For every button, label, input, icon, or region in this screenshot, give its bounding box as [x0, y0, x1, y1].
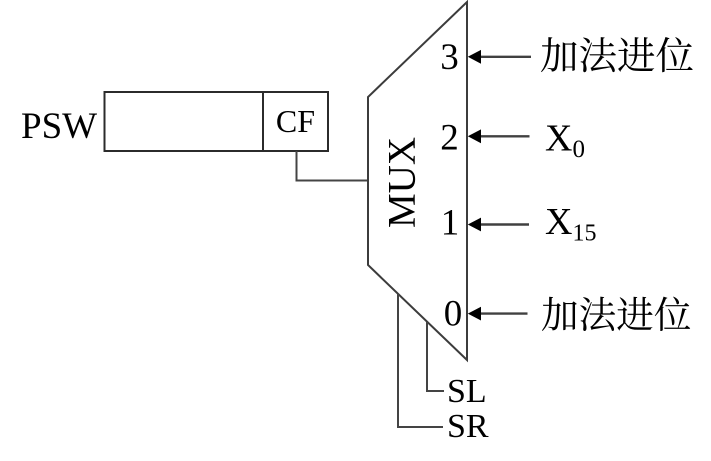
svg-text:SR: SR: [447, 408, 489, 445]
svg-text:1: 1: [441, 203, 460, 244]
wire arrow into pin 1: [480, 223, 529, 225]
wire arrow into pin 3: [480, 56, 531, 58]
wire arrow into pin 2: [480, 135, 530, 137]
register PSW box: [105, 92, 329, 151]
svg-text:CF: CF: [276, 103, 315, 139]
svg-text:SL: SL: [447, 373, 487, 410]
wire arrow into pin 0: [480, 312, 528, 314]
svg-text:PSW: PSW: [21, 106, 97, 147]
svg-text:3: 3: [440, 37, 459, 78]
net label 加法进位 (pin 0): [542, 297, 690, 331]
wire SL: [427, 322, 444, 391]
net label 加法进位 (pin 3): [541, 37, 693, 72]
wire CF to MUX: [297, 151, 369, 181]
wire SR: [398, 294, 443, 427]
svg-text:MUX: MUX: [381, 137, 424, 228]
svg-text:2: 2: [440, 118, 459, 159]
CF cell divider: [262, 92, 264, 151]
svg-text:0: 0: [444, 294, 463, 335]
mux U1 trapezoid body: [368, 2, 467, 360]
